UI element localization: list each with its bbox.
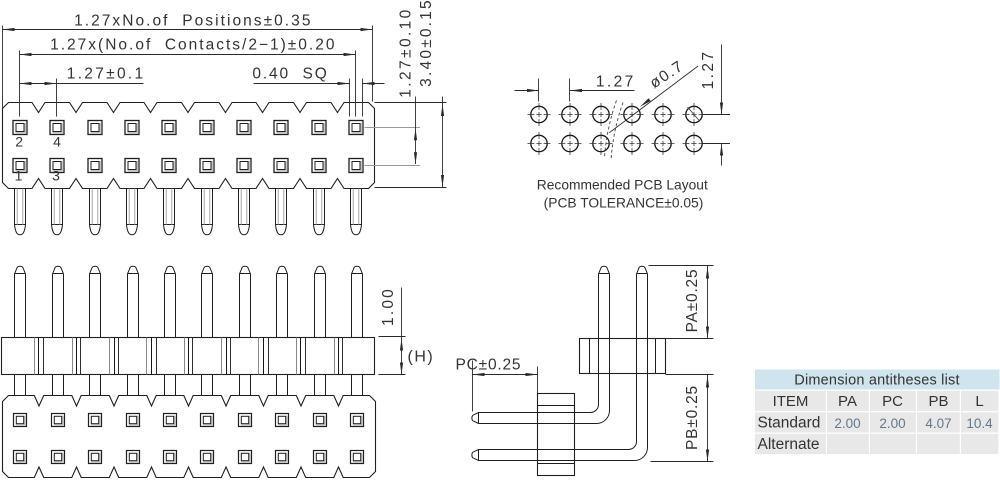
svg-text:Standard: Standard bbox=[758, 415, 821, 432]
svg-text:Dimension antitheses list: Dimension antitheses list bbox=[794, 373, 959, 389]
svg-text:PC±0.25: PC±0.25 bbox=[456, 357, 522, 374]
svg-text:PA: PA bbox=[838, 393, 857, 410]
svg-text:(H): (H) bbox=[408, 349, 435, 366]
svg-text:3: 3 bbox=[52, 168, 60, 184]
svg-text:L: L bbox=[975, 393, 983, 410]
svg-text:Alternate: Alternate bbox=[758, 436, 820, 453]
svg-text:2.00: 2.00 bbox=[879, 416, 905, 431]
svg-text:4.07: 4.07 bbox=[925, 416, 951, 431]
svg-text:10.4: 10.4 bbox=[966, 416, 993, 431]
svg-text:PB±0.25: PB±0.25 bbox=[684, 385, 701, 450]
svg-text:1.27: 1.27 bbox=[700, 50, 717, 90]
svg-text:1.27x(No.of Contacts/2−1)±0.2: 1.27x(No.of Contacts/2−1)±0.20 bbox=[50, 37, 336, 54]
svg-text:ITEM: ITEM bbox=[773, 393, 809, 410]
svg-text:1.27±0.1: 1.27±0.1 bbox=[67, 66, 146, 83]
svg-text:2.00: 2.00 bbox=[834, 416, 860, 431]
svg-text:2: 2 bbox=[15, 134, 23, 150]
svg-text:4: 4 bbox=[53, 134, 61, 150]
svg-text:0.40 SQ: 0.40 SQ bbox=[252, 66, 328, 83]
svg-text:PB: PB bbox=[928, 393, 948, 410]
svg-text:ø0.7: ø0.7 bbox=[647, 57, 687, 92]
svg-text:1.27: 1.27 bbox=[596, 74, 636, 91]
svg-text:PA±0.25: PA±0.25 bbox=[684, 269, 701, 333]
svg-text:(PCB TOLERANCE±0.05): (PCB TOLERANCE±0.05) bbox=[544, 196, 704, 211]
svg-text:1: 1 bbox=[15, 168, 23, 184]
svg-text:1.27xNo.of Positions±0.35: 1.27xNo.of Positions±0.35 bbox=[74, 13, 312, 30]
svg-text:Recommended PCB Layout: Recommended PCB Layout bbox=[537, 178, 708, 193]
svg-text:1.27±0.10: 1.27±0.10 bbox=[398, 7, 415, 97]
svg-text:PC: PC bbox=[882, 393, 903, 410]
svg-text:1.00: 1.00 bbox=[380, 287, 397, 326]
svg-text:3.40±0.15: 3.40±0.15 bbox=[418, 0, 435, 87]
